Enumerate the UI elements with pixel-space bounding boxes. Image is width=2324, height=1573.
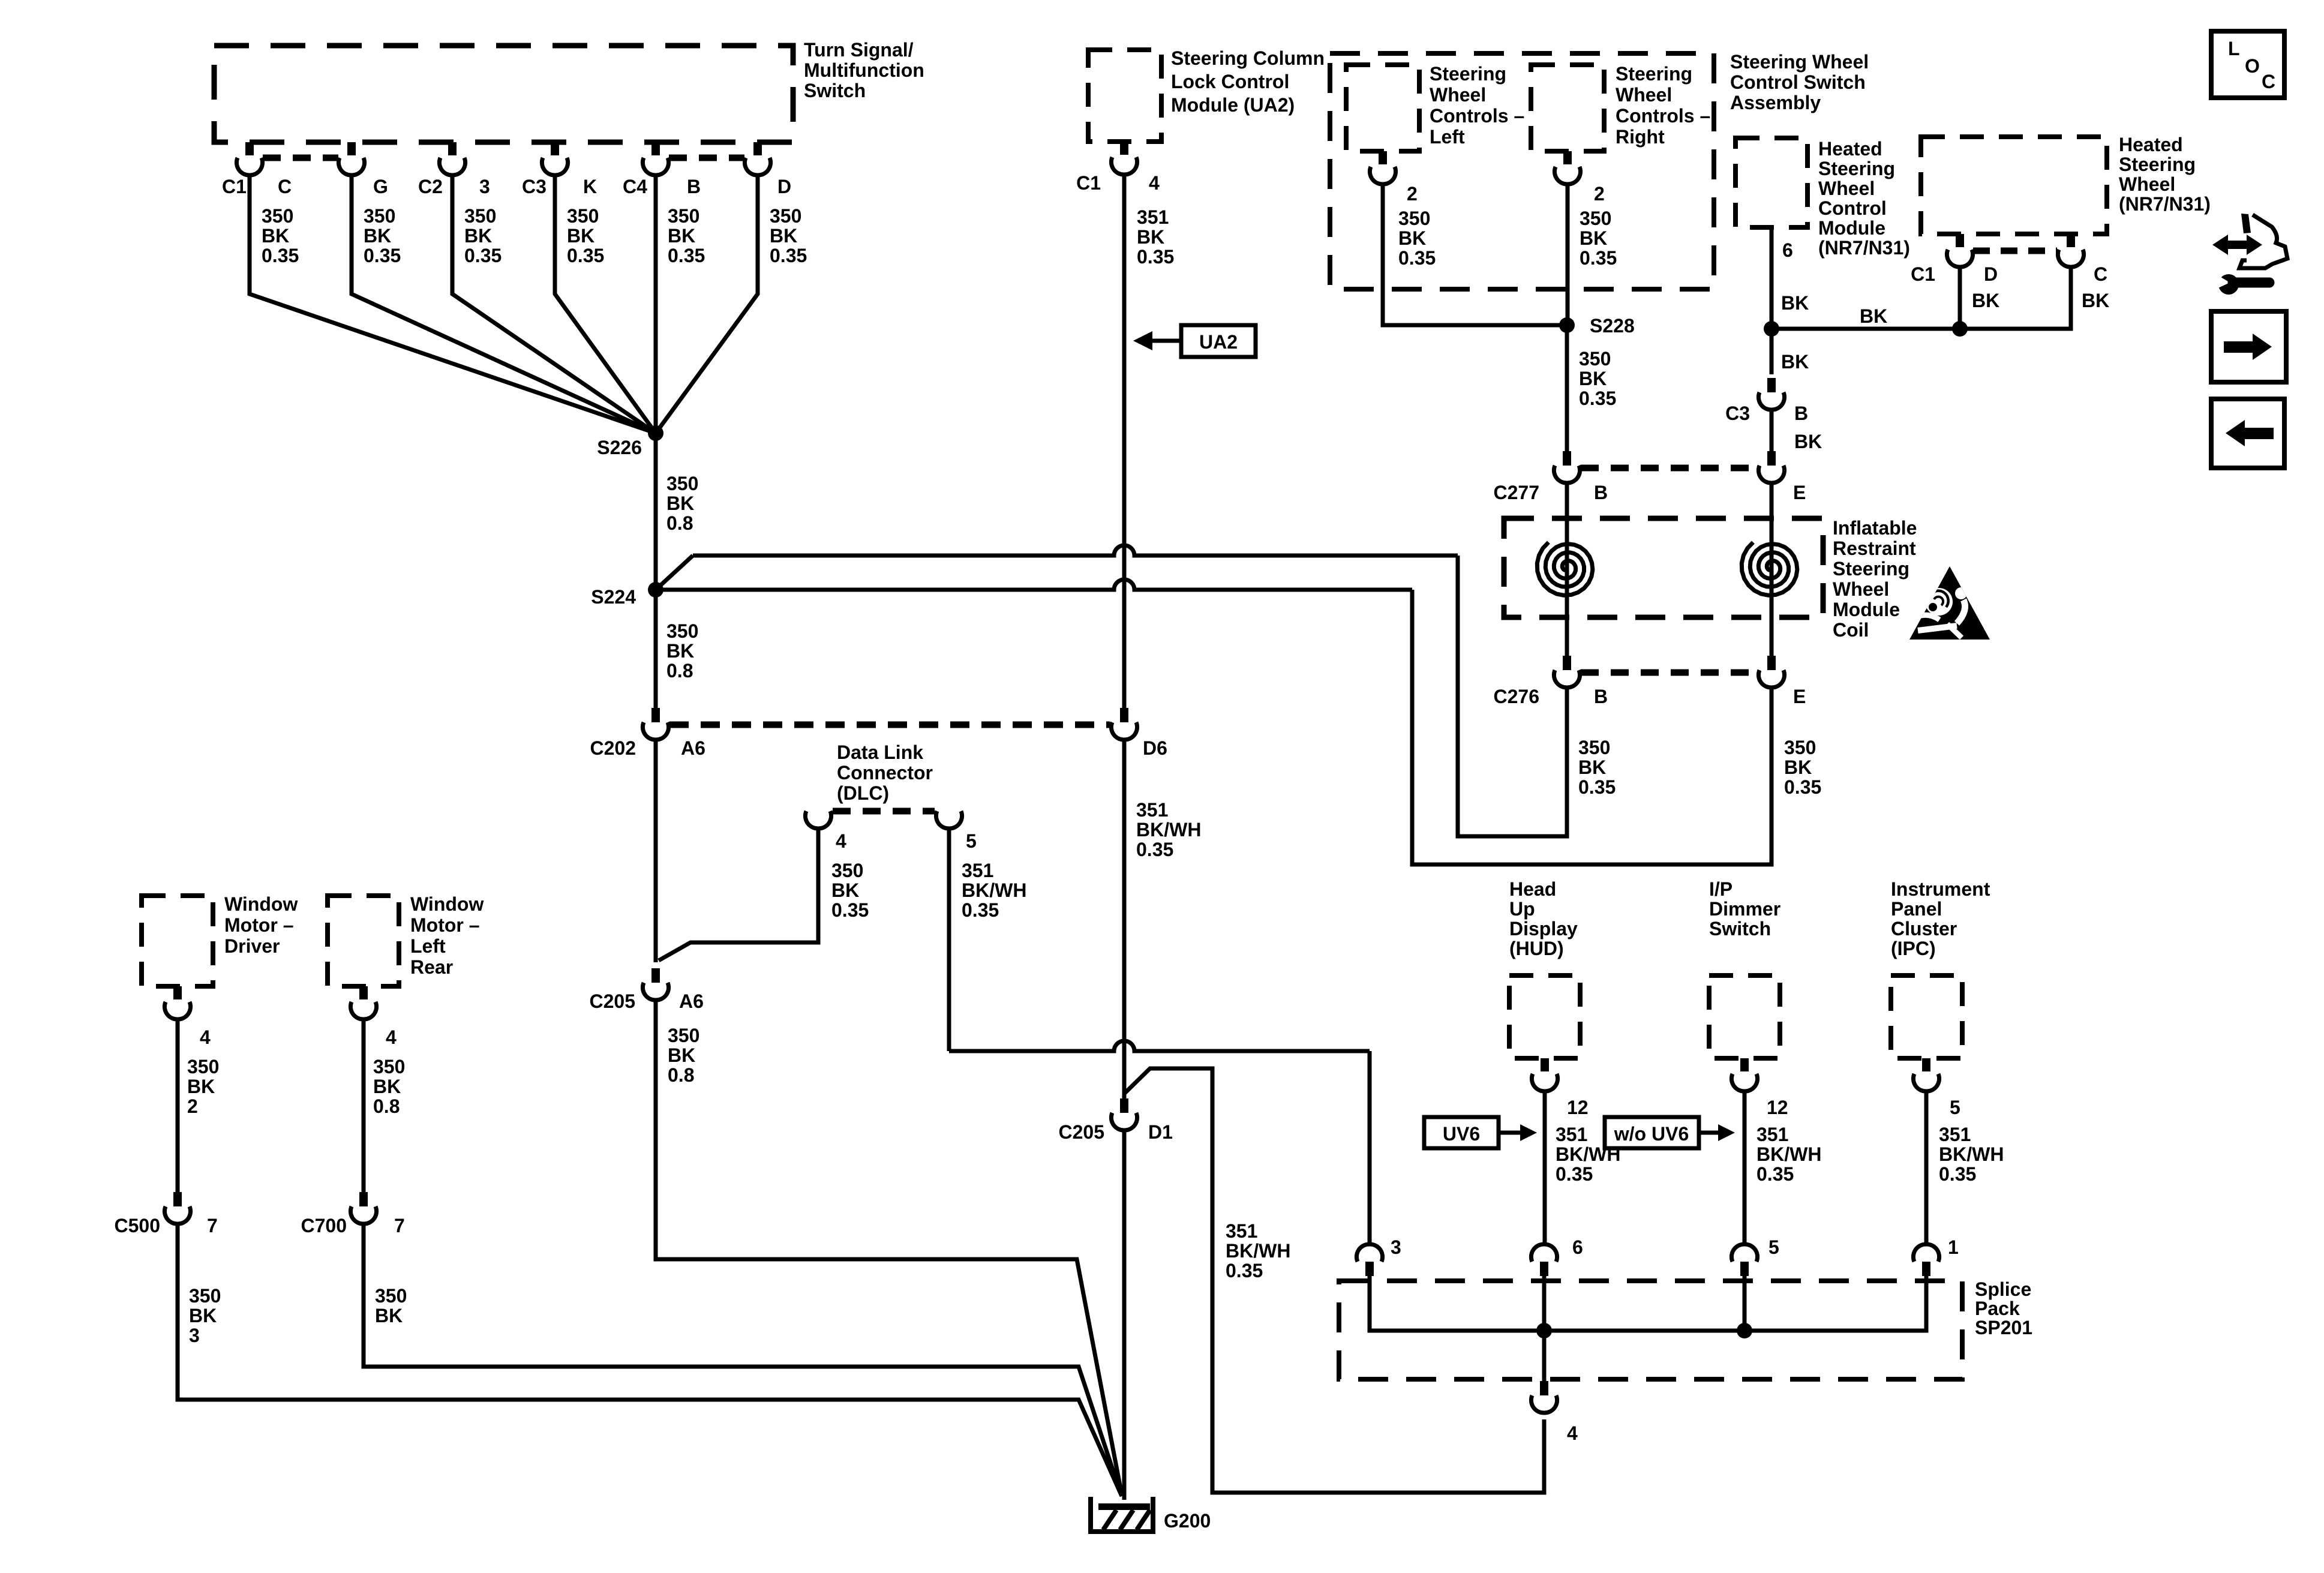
svg-text:BK/WH: BK/WH [1756, 1143, 1821, 1165]
svg-text:5: 5 [1768, 1236, 1779, 1258]
svg-text:Right: Right [1616, 126, 1665, 148]
svg-text:0.35: 0.35 [1556, 1163, 1593, 1185]
svg-text:350: 350 [770, 205, 801, 227]
svg-text:4: 4 [1149, 172, 1160, 194]
svg-text:350: 350 [668, 1025, 699, 1046]
svg-text:350: 350 [375, 1285, 407, 1307]
svg-text:350: 350 [1578, 737, 1610, 758]
svg-text:Left: Left [410, 935, 446, 957]
svg-text:BK: BK [770, 225, 797, 247]
svg-text:L: L [2228, 38, 2240, 59]
svg-text:350: 350 [1580, 208, 1611, 229]
svg-text:0.8: 0.8 [668, 1064, 694, 1086]
svg-text:(DLC): (DLC) [837, 782, 889, 804]
svg-text:Restraint: Restraint [1833, 538, 1916, 559]
svg-text:BK: BK [1794, 431, 1822, 452]
svg-text:D1: D1 [1148, 1121, 1173, 1143]
svg-text:BK: BK [1578, 757, 1606, 778]
svg-text:0.35: 0.35 [668, 245, 705, 266]
svg-text:Display: Display [1509, 918, 1578, 939]
svg-text:Motor –: Motor – [410, 914, 480, 936]
svg-text:Left: Left [1430, 126, 1465, 148]
svg-text:BK/WH: BK/WH [1939, 1143, 2004, 1165]
svg-text:351: 351 [1939, 1124, 1971, 1145]
svg-text:Wheel: Wheel [1818, 178, 1875, 199]
svg-text:A6: A6 [679, 990, 704, 1012]
svg-text:0.35: 0.35 [1226, 1260, 1263, 1281]
svg-text:0.35: 0.35 [567, 245, 604, 266]
svg-text:Steering: Steering [1430, 63, 1506, 85]
svg-text:BK/WH: BK/WH [1226, 1240, 1290, 1262]
svg-text:C3: C3 [522, 176, 547, 197]
svg-text:C: C [278, 176, 292, 197]
svg-text:BK: BK [1398, 227, 1426, 249]
svg-text:350: 350 [666, 473, 698, 494]
svg-text:350: 350 [189, 1285, 221, 1307]
svg-text:C1: C1 [222, 176, 247, 197]
svg-text:BK: BK [262, 225, 289, 247]
svg-text:Wheel: Wheel [1833, 578, 1889, 600]
svg-text:351: 351 [1556, 1124, 1587, 1145]
svg-text:0.35: 0.35 [1939, 1163, 1976, 1185]
svg-text:C1: C1 [1911, 263, 1935, 285]
svg-text:C202: C202 [590, 737, 636, 759]
svg-text:S224: S224 [591, 586, 636, 608]
svg-text:(HUD): (HUD) [1509, 938, 1564, 959]
svg-text:O: O [2245, 55, 2260, 77]
svg-text:C700: C700 [301, 1215, 347, 1236]
svg-text:C205: C205 [1059, 1121, 1105, 1143]
svg-text:I/P: I/P [1709, 878, 1733, 900]
svg-text:3: 3 [1391, 1236, 1401, 1258]
svg-text:3: 3 [189, 1325, 200, 1346]
svg-text:4: 4 [386, 1026, 397, 1048]
svg-text:BK: BK [375, 1305, 403, 1326]
svg-text:350: 350 [1398, 208, 1430, 229]
svg-text:B: B [1594, 686, 1608, 707]
svg-text:BK: BK [666, 640, 694, 662]
svg-text:2: 2 [187, 1095, 198, 1117]
svg-text:C276: C276 [1494, 686, 1540, 707]
svg-text:7: 7 [207, 1215, 218, 1236]
svg-text:Wheel: Wheel [1616, 84, 1672, 106]
svg-text:Inflatable: Inflatable [1833, 517, 1917, 539]
svg-text:E: E [1793, 482, 1806, 503]
svg-text:C: C [2094, 263, 2107, 285]
svg-text:12: 12 [1767, 1097, 1788, 1118]
svg-text:(NR7/N31): (NR7/N31) [2119, 193, 2211, 215]
svg-text:350: 350 [262, 205, 293, 227]
svg-text:BK: BK [668, 1044, 695, 1066]
svg-text:Multifunction: Multifunction [804, 59, 924, 81]
svg-text:Steering Column: Steering Column [1171, 47, 1325, 69]
svg-text:2: 2 [1407, 183, 1418, 205]
svg-text:0.35: 0.35 [770, 245, 807, 266]
svg-text:B: B [1594, 482, 1608, 503]
svg-text:350: 350 [464, 205, 496, 227]
svg-text:C205: C205 [590, 990, 636, 1012]
svg-text:Pack: Pack [1975, 1298, 2020, 1319]
svg-text:350: 350 [668, 205, 699, 227]
svg-text:S228: S228 [1590, 315, 1635, 337]
svg-text:0.8: 0.8 [373, 1095, 400, 1117]
svg-text:0.35: 0.35 [1578, 776, 1616, 798]
svg-text:Data Link: Data Link [837, 742, 923, 763]
svg-text:350: 350 [364, 205, 395, 227]
svg-text:BK: BK [189, 1305, 217, 1326]
svg-text:Heated: Heated [1818, 138, 1882, 160]
svg-text:2: 2 [1594, 183, 1605, 205]
svg-text:C4: C4 [623, 176, 647, 197]
svg-text:0.35: 0.35 [1398, 247, 1436, 269]
svg-text:Controls –: Controls – [1430, 105, 1524, 127]
svg-text:351: 351 [1226, 1220, 1257, 1242]
svg-text:(IPC): (IPC) [1891, 938, 1936, 959]
svg-text:5: 5 [966, 830, 977, 852]
svg-text:0.35: 0.35 [1580, 247, 1617, 269]
svg-text:Splice: Splice [1975, 1278, 2031, 1300]
svg-text:A6: A6 [681, 737, 705, 759]
svg-text:Turn Signal/: Turn Signal/ [804, 39, 914, 61]
svg-text:Wheel: Wheel [1430, 84, 1486, 106]
svg-text:Module: Module [1833, 599, 1900, 620]
svg-text:350: 350 [1784, 737, 1816, 758]
svg-text:BK: BK [1781, 292, 1809, 314]
svg-text:Heated: Heated [2119, 134, 2183, 155]
svg-text:Wheel: Wheel [2119, 173, 2175, 195]
svg-text:C277: C277 [1494, 482, 1540, 503]
svg-text:BK: BK [2082, 290, 2109, 311]
svg-text:B: B [687, 176, 701, 197]
svg-text:Steering Wheel: Steering Wheel [1730, 51, 1869, 73]
svg-text:351: 351 [1136, 799, 1168, 821]
svg-text:6: 6 [1782, 239, 1793, 261]
svg-text:350: 350 [187, 1056, 219, 1077]
svg-text:BK: BK [364, 225, 391, 247]
svg-text:351: 351 [1137, 206, 1169, 228]
svg-text:4: 4 [836, 830, 846, 852]
svg-text:C500: C500 [115, 1215, 161, 1236]
svg-text:BK: BK [666, 493, 694, 514]
svg-text:C2: C2 [418, 176, 443, 197]
svg-text:Switch: Switch [1709, 918, 1771, 939]
svg-text:351: 351 [1756, 1124, 1788, 1145]
svg-text:0.35: 0.35 [1756, 1163, 1794, 1185]
svg-text:K: K [583, 176, 597, 197]
svg-text:6: 6 [1572, 1236, 1583, 1258]
svg-text:E: E [1793, 686, 1806, 707]
svg-text:Up: Up [1509, 898, 1535, 920]
svg-text:0.8: 0.8 [666, 512, 693, 534]
svg-text:12: 12 [1567, 1097, 1589, 1118]
svg-text:0.8: 0.8 [666, 660, 693, 682]
svg-text:Head: Head [1509, 878, 1556, 900]
svg-text:Steering: Steering [2119, 154, 2196, 175]
svg-text:Module: Module [1818, 217, 1885, 239]
svg-text:BK: BK [831, 879, 859, 901]
svg-text:7: 7 [394, 1215, 405, 1236]
svg-text:Control: Control [1818, 197, 1887, 219]
svg-text:1: 1 [1948, 1236, 1959, 1258]
svg-text:B: B [1794, 403, 1808, 424]
svg-text:BK: BK [464, 225, 492, 247]
svg-text:BK: BK [1137, 226, 1164, 248]
svg-text:0.35: 0.35 [1784, 776, 1821, 798]
svg-text:351: 351 [962, 860, 993, 881]
svg-text:UV6: UV6 [1443, 1123, 1480, 1145]
svg-text:4: 4 [1567, 1422, 1578, 1444]
svg-text:Lock Control: Lock Control [1171, 71, 1289, 92]
svg-text:Control Switch: Control Switch [1730, 71, 1866, 93]
svg-text:S226: S226 [597, 437, 642, 458]
svg-text:350: 350 [831, 860, 863, 881]
svg-text:Connector: Connector [837, 762, 933, 784]
svg-text:Dimmer: Dimmer [1709, 898, 1780, 920]
svg-text:Instrument: Instrument [1891, 878, 1990, 900]
svg-text:Window: Window [224, 893, 298, 915]
svg-text:350: 350 [373, 1056, 405, 1077]
svg-text:Driver: Driver [224, 935, 280, 957]
svg-text:BK: BK [373, 1076, 401, 1097]
svg-text:BK: BK [1972, 290, 1999, 311]
svg-text:0.35: 0.35 [962, 899, 999, 921]
svg-text:Panel: Panel [1891, 898, 1942, 920]
svg-text:D: D [1984, 263, 1998, 285]
svg-text:Steering: Steering [1818, 158, 1895, 179]
svg-text:C3: C3 [1725, 403, 1750, 424]
svg-text:350: 350 [1579, 348, 1611, 370]
svg-text:Motor –: Motor – [224, 914, 294, 936]
svg-text:0.35: 0.35 [1137, 246, 1174, 268]
svg-text:Rear: Rear [410, 956, 453, 978]
svg-text:G200: G200 [1164, 1510, 1211, 1532]
svg-text:Controls –: Controls – [1616, 105, 1710, 127]
svg-text:SP201: SP201 [1975, 1317, 2032, 1338]
svg-text:0.35: 0.35 [1579, 388, 1616, 409]
svg-text:350: 350 [567, 205, 599, 227]
svg-text:C: C [2262, 71, 2275, 92]
svg-text:BK: BK [567, 225, 594, 247]
svg-text:350: 350 [666, 620, 698, 642]
svg-text:BK/WH: BK/WH [1136, 819, 1201, 840]
svg-text:BK: BK [1579, 368, 1607, 389]
svg-text:G: G [373, 176, 388, 197]
svg-text:D6: D6 [1143, 737, 1167, 759]
svg-text:BK: BK [668, 225, 695, 247]
svg-text:BK/WH: BK/WH [962, 879, 1026, 901]
svg-text:Coil: Coil [1833, 619, 1869, 641]
svg-text:(NR7/N31): (NR7/N31) [1818, 237, 1910, 259]
svg-text:Assembly: Assembly [1730, 92, 1821, 113]
svg-text:Module (UA2): Module (UA2) [1171, 94, 1295, 116]
svg-text:Window: Window [410, 893, 484, 915]
svg-text:0.35: 0.35 [1136, 839, 1173, 860]
svg-text:BK: BK [1781, 351, 1809, 373]
svg-text:Steering: Steering [1833, 558, 1909, 580]
svg-text:0.35: 0.35 [464, 245, 502, 266]
svg-text:BK: BK [1580, 227, 1607, 249]
svg-text:BK: BK [187, 1076, 215, 1097]
svg-text:4: 4 [200, 1026, 211, 1048]
svg-text:C1: C1 [1076, 172, 1101, 194]
svg-text:Switch: Switch [804, 80, 866, 101]
svg-text:0.35: 0.35 [262, 245, 299, 266]
svg-text:UA2: UA2 [1199, 331, 1238, 353]
svg-text:BK: BK [1784, 757, 1812, 778]
svg-text:D: D [777, 176, 791, 197]
svg-text:Steering: Steering [1616, 63, 1692, 85]
svg-text:0.35: 0.35 [831, 899, 869, 921]
svg-text:3: 3 [479, 176, 490, 197]
svg-text:Cluster: Cluster [1891, 918, 1957, 939]
svg-text:5: 5 [1950, 1097, 1960, 1118]
svg-text:BK: BK [1860, 305, 1887, 327]
svg-text:w/o UV6: w/o UV6 [1614, 1123, 1689, 1145]
svg-text:0.35: 0.35 [364, 245, 401, 266]
